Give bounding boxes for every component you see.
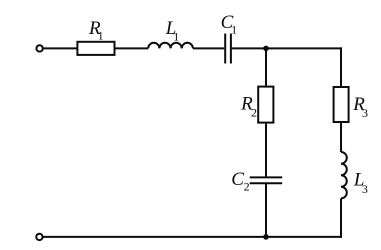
wire terminal to R1 (43, 47, 77, 49)
label R2 (240, 94, 257, 120)
svg-text:1: 1 (231, 22, 237, 36)
svg-text:2: 2 (244, 179, 250, 193)
label C1 (221, 12, 238, 36)
resistor R3 (334, 87, 349, 122)
inductor L1 (148, 43, 193, 49)
svg-text:C: C (231, 169, 244, 190)
label C2 (231, 169, 249, 193)
capacitor C2 (250, 177, 283, 183)
svg-text:3: 3 (362, 106, 368, 120)
wire C2 to bottom node (265, 184, 267, 237)
wire R1 to L1 (116, 47, 149, 49)
wire R2 to C2 (265, 124, 267, 177)
inductor L3 (341, 152, 347, 198)
wire L3 to bottom-right corner (340, 198, 342, 238)
wire node A down to R2 (265, 48, 267, 86)
resistor R2 (258, 87, 273, 123)
svg-text:2: 2 (251, 105, 257, 119)
wire node A to top-right corner (266, 47, 342, 49)
wire C1 to node A (232, 47, 266, 49)
svg-text:1: 1 (173, 29, 179, 43)
capacitor C1 (225, 34, 231, 64)
svg-text:1: 1 (98, 29, 104, 43)
label R1 (88, 18, 104, 43)
svg-text:3: 3 (362, 182, 368, 196)
bottom rail wire (43, 236, 342, 238)
wire L1 to C1 (193, 47, 224, 49)
label R3 (352, 94, 368, 120)
terminal top-left (36, 45, 42, 51)
node A junction dot (263, 46, 269, 52)
node B junction dot (263, 234, 269, 240)
label L3 (353, 170, 368, 197)
terminal bottom-left (36, 234, 42, 240)
label L1 (165, 18, 180, 43)
wire top-right corner down to R3 (340, 47, 342, 86)
wire R3 to L3 (340, 123, 342, 152)
resistor R1 (77, 42, 114, 55)
